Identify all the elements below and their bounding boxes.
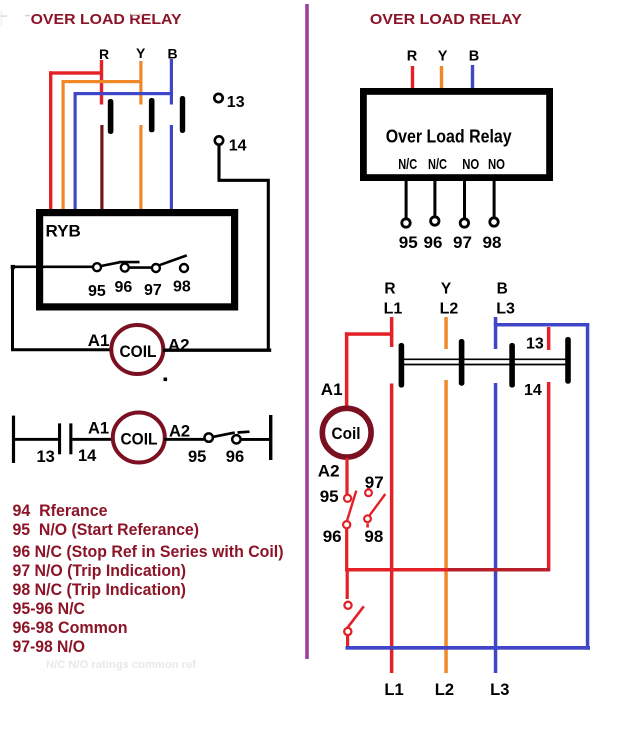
junction node left — [11, 265, 15, 269]
wire from 14 to right rail — [219, 145, 268, 351]
contact circle 98 — [180, 264, 188, 272]
wire orange Y horizontal — [62, 80, 142, 83]
svg-text:Y: Y — [441, 281, 452, 298]
lead terminal 95 — [402, 219, 410, 227]
stray dot — [164, 378, 168, 382]
wire 96-97 — [129, 266, 152, 269]
overload heater contact bar Y — [149, 98, 155, 132]
wire coil A2 to right rail — [163, 349, 271, 352]
contact blade 95-96 — [101, 262, 120, 266]
svg-text:95: 95 — [399, 233, 418, 252]
lead 98 — [493, 181, 496, 217]
wire blue B lower to box — [170, 125, 173, 209]
wire into box to contact 95 — [13, 265, 94, 268]
wire blue B vertical under label — [170, 59, 173, 105]
wire red R horizontal — [49, 71, 103, 74]
svg-text:98: 98 — [483, 233, 502, 252]
svg-text:Over Load Relay: Over Load Relay — [386, 127, 512, 147]
svg-text:95: 95 — [320, 487, 339, 506]
svg-text:95-96 N/C: 95-96 N/C — [13, 600, 86, 618]
svg-text:R: R — [384, 281, 395, 298]
contact bar aux (right) — [565, 337, 571, 384]
svg-text:Coil: Coil — [332, 424, 361, 443]
svg-text:R: R — [99, 46, 109, 62]
contact blade 95-96 (rung2) — [213, 433, 235, 437]
wire orange Y drop to box — [62, 80, 65, 209]
ghost mark top-left corner — [0, 15, 7, 16]
rung2 wire left — [12, 438, 58, 441]
coil circle (rung2) — [113, 413, 165, 463]
svg-text:OVER LOAD RELAY: OVER LOAD RELAY — [31, 11, 182, 28]
wire red aux 13 upper — [547, 327, 551, 350]
contact circle 95 — [93, 263, 101, 271]
wire orange Y stub — [440, 66, 443, 93]
wire red aux lower — [547, 382, 551, 571]
wire L3 blue lower — [494, 383, 498, 673]
lead 96 — [433, 181, 436, 216]
rung2 contact bar 14 — [69, 423, 72, 454]
svg-text:L1: L1 — [384, 681, 403, 699]
rung2 left rail — [12, 416, 15, 463]
svg-text:98: 98 — [173, 279, 191, 296]
svg-text:95 N/O (Start Referance): 95 N/O (Start Referance) — [13, 521, 200, 539]
wire red A1 drop — [345, 332, 349, 406]
svg-text:N/C: N/C — [428, 156, 447, 173]
svg-text:L3: L3 — [496, 301, 515, 318]
contact blade stop — [347, 606, 364, 628]
lead 95 — [405, 181, 408, 218]
purple divider — [305, 4, 309, 659]
svg-text:A2: A2 — [169, 423, 190, 441]
rung2 contact bar 13 — [58, 423, 61, 454]
svg-text:A2: A2 — [318, 461, 340, 480]
contact bar L1 (right) — [399, 343, 405, 388]
wire red branch to A1 — [345, 332, 393, 336]
wire L1 red upper — [390, 317, 394, 347]
svg-text:96-98 Common: 96-98 Common — [13, 619, 128, 637]
svg-text:L1: L1 — [384, 301, 403, 318]
contact stub 97 top — [367, 488, 370, 491]
rung2 wire to coil — [72, 438, 114, 441]
contact circle 98 (right) — [364, 515, 371, 522]
svg-text:B: B — [469, 48, 479, 64]
svg-text:R: R — [407, 48, 418, 64]
lead terminal 96 — [431, 217, 439, 225]
coil circle — [111, 325, 163, 374]
trip bar double line — [403, 359, 568, 364]
contact blade 95-96 (right) — [347, 491, 357, 522]
contact circle stop bottom — [344, 628, 351, 635]
wire red R vertical under label — [100, 60, 103, 105]
wire orange Y vertical under label — [139, 61, 142, 105]
wire red horizontal to aux — [345, 568, 451, 572]
contact blade 97-98 — [370, 494, 386, 516]
svg-text:A1: A1 — [88, 420, 109, 438]
wire red R stub — [411, 66, 414, 93]
svg-text:COIL: COIL — [121, 429, 158, 448]
wire red down to stop contact — [346, 568, 349, 599]
overload heater contact bar R — [108, 99, 114, 134]
svg-text:96: 96 — [323, 527, 342, 546]
contact tail over 96 — [119, 261, 140, 264]
svg-text:NO: NO — [488, 156, 505, 173]
contact circle 96 (right) — [343, 521, 350, 528]
wire L3 blue upper — [494, 317, 498, 349]
wire crimson horizontal to aux 14 — [448, 568, 550, 572]
svg-text:98: 98 — [364, 527, 383, 546]
rung2 wire 96 to rail — [241, 438, 271, 441]
contact circle stop top — [344, 602, 351, 609]
wire blue B horizontal — [74, 92, 174, 95]
contact stub 98 — [366, 524, 369, 528]
svg-text:A1: A1 — [321, 380, 343, 399]
svg-text:96: 96 — [115, 279, 133, 296]
coil circle (right) — [322, 408, 371, 457]
svg-text:COIL: COIL — [120, 342, 157, 361]
svg-text:14: 14 — [229, 138, 247, 155]
svg-text:95: 95 — [88, 283, 106, 300]
svg-text:B: B — [497, 281, 508, 298]
wire L2 orange lower — [444, 380, 448, 673]
RYB relay box — [40, 213, 235, 307]
svg-text:L2: L2 — [435, 681, 454, 699]
svg-text:97 N/O (Trip Indication): 97 N/O (Trip Indication) — [13, 562, 187, 580]
wire L1 red lower — [390, 384, 394, 674]
contact circle 95 (right) — [344, 495, 351, 502]
svg-text:Y: Y — [438, 48, 448, 64]
svg-text:95: 95 — [188, 448, 206, 466]
svg-text:NO: NO — [462, 156, 479, 173]
svg-text:13: 13 — [227, 94, 245, 111]
lead terminal 97 — [460, 219, 468, 227]
relay box (right) — [363, 91, 549, 177]
svg-text:97-98 N/O: 97-98 N/O — [13, 638, 86, 656]
svg-text:L3: L3 — [490, 681, 509, 699]
contact bar L3 (right) — [509, 343, 515, 388]
contact bar L2 (right) — [459, 339, 465, 386]
wire blue B stub — [471, 65, 474, 92]
wire red stop to blue bus — [346, 636, 349, 648]
svg-text:97: 97 — [144, 282, 162, 299]
svg-text:14: 14 — [524, 382, 542, 399]
svg-text:N/C: N/C — [398, 156, 417, 173]
terminal circle 13 — [214, 94, 222, 102]
wire blue right rail — [586, 323, 590, 650]
svg-text:96: 96 — [226, 448, 244, 466]
svg-text:94 Rferance: 94 Rferance — [13, 502, 108, 520]
wire red coil to 95 contact — [345, 458, 348, 495]
wire orange Y lower to box — [139, 125, 142, 209]
terminal circle 14 — [215, 136, 223, 144]
svg-text:96 N/C (Stop Ref in Series wit: 96 N/C (Stop Ref in Series with Coil) — [13, 543, 284, 561]
svg-text:OVER LOAD RELAY: OVER LOAD RELAY — [370, 11, 522, 28]
svg-text:13: 13 — [37, 448, 55, 466]
lead terminal 98 — [490, 218, 498, 226]
contact circle 97 (right) — [365, 489, 372, 496]
svg-text:13: 13 — [526, 336, 544, 353]
contact blade 97 — [159, 255, 186, 265]
svg-text:98 N/C (Trip Indication): 98 N/C (Trip Indication) — [13, 581, 187, 599]
contact circle 96 — [121, 264, 129, 272]
svg-text:14: 14 — [78, 447, 97, 465]
contact tail 96 (rung2) — [238, 430, 250, 433]
svg-text:A1: A1 — [88, 331, 110, 350]
wire red 96 down to junction — [345, 529, 348, 572]
overload heater contact bar B — [180, 96, 185, 133]
contact circle 95 (rung2) — [205, 433, 213, 441]
svg-text:L2: L2 — [440, 301, 459, 318]
rung2 right rail — [269, 415, 272, 460]
wire blue branch to right rail — [494, 323, 590, 327]
svg-text:Y: Y — [136, 45, 146, 61]
rung2 wire coil to 95 — [164, 438, 204, 441]
wire left drop to coil A1 — [13, 267, 112, 350]
contact circle 96 (rung2) — [232, 435, 240, 443]
svg-text:97: 97 — [453, 233, 472, 252]
contact circle 97 — [152, 264, 160, 272]
svg-text:RYB: RYB — [46, 222, 81, 241]
wire red R drop to box — [49, 71, 52, 209]
wire blue bottom bus — [346, 646, 591, 650]
wire L2 orange upper — [444, 317, 448, 349]
lead 97 — [463, 181, 466, 218]
wire blue B drop to box — [74, 92, 77, 209]
svg-text:N/C N/O ratings common ref: N/C N/O ratings common ref — [46, 659, 196, 671]
wire dark-red R lower to box — [100, 125, 103, 209]
svg-text:96: 96 — [424, 233, 443, 252]
